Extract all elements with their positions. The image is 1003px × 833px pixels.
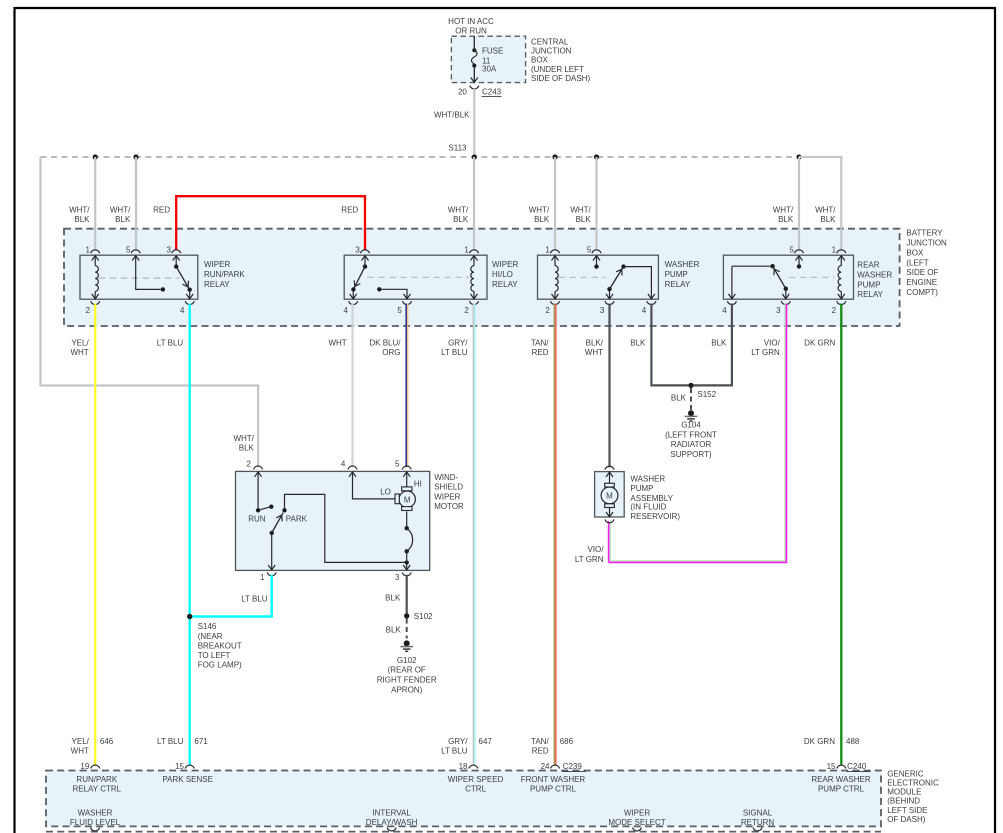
svg-text:647: 647 bbox=[479, 737, 493, 746]
GEM pin function INTERVAL DELAY/WASH bbox=[366, 808, 418, 827]
svg-text:M: M bbox=[606, 491, 613, 500]
battery junction box (dashed) bbox=[64, 229, 900, 326]
wire label LT BLU 671 bbox=[157, 737, 208, 746]
relay K4 label bbox=[857, 261, 892, 300]
svg-text:WHT: WHT bbox=[328, 339, 346, 348]
relay K2 pin 3 bbox=[355, 246, 369, 261]
svg-text:24: 24 bbox=[541, 762, 550, 771]
GEM pin 18 at x=473.3 bbox=[459, 762, 478, 771]
motor pin 1 bbox=[260, 565, 276, 582]
motor LO label bbox=[380, 487, 391, 496]
wire label RED (K2 pin3) bbox=[341, 206, 358, 215]
wire label DK BLU/ORG (K2 pin5) bbox=[369, 339, 401, 358]
fuse 11 30A bbox=[471, 36, 478, 82]
svg-text:DELAY/WASH: DELAY/WASH bbox=[366, 818, 418, 827]
svg-text:RED: RED bbox=[532, 348, 549, 357]
GEM pin 15 at x=841.3 bbox=[827, 762, 846, 771]
GEM pin function REAR WASHER PUMP CTRL bbox=[811, 775, 870, 794]
svg-text:RED: RED bbox=[341, 206, 358, 215]
motor run contact bbox=[256, 473, 274, 513]
svg-text:GRY/: GRY/ bbox=[448, 737, 468, 746]
svg-text:(LEFT: (LEFT bbox=[906, 258, 928, 267]
relay K4 pin 5 bbox=[789, 246, 803, 261]
connector C239 label bbox=[562, 762, 586, 771]
wire label WHT/BLK (K1 pin5) bbox=[110, 206, 131, 225]
svg-text:646: 646 bbox=[100, 737, 114, 746]
motor pin5 to HI brush bbox=[406, 473, 408, 487]
power feed label HOT IN ACC OR RUN bbox=[448, 17, 494, 36]
svg-text:BLK: BLK bbox=[74, 215, 90, 224]
svg-text:LEFT SIDE: LEFT SIDE bbox=[887, 806, 927, 815]
splice bus S113 bbox=[41, 156, 800, 158]
svg-text:RUN/PARK: RUN/PARK bbox=[204, 270, 245, 279]
relay K2 pin 5 bbox=[397, 294, 411, 315]
relay K2 pin5 contact line bbox=[377, 287, 407, 299]
relay K4 pin5 stub bbox=[797, 256, 801, 269]
svg-text:PUMP CTRL: PUMP CTRL bbox=[530, 785, 577, 794]
svg-text:1: 1 bbox=[86, 246, 91, 255]
svg-text:BATTERY: BATTERY bbox=[906, 229, 943, 238]
relay K2 pin 1 bbox=[464, 246, 478, 261]
svg-text:(BEHIND: (BEHIND bbox=[887, 797, 920, 806]
svg-text:COMPT): COMPT) bbox=[906, 288, 938, 297]
svg-text:WIPER: WIPER bbox=[204, 260, 230, 269]
svg-text:BLK: BLK bbox=[711, 339, 727, 348]
svg-text:BLK: BLK bbox=[778, 215, 794, 224]
motor pin1 link bbox=[271, 533, 273, 569]
ground G104 label bbox=[665, 421, 717, 459]
svg-text:ENGINE: ENGINE bbox=[906, 278, 937, 287]
svg-text:RELAY CTRL: RELAY CTRL bbox=[72, 785, 121, 794]
svg-text:DK BLU/: DK BLU/ bbox=[369, 339, 401, 348]
lower module top edge (dashed) bbox=[46, 831, 881, 833]
svg-text:TAN/: TAN/ bbox=[531, 339, 549, 348]
svg-text:1: 1 bbox=[260, 573, 265, 582]
connector C240 label bbox=[847, 762, 871, 771]
generic electronic module label bbox=[887, 769, 939, 824]
svg-text:YEL/: YEL/ bbox=[72, 737, 90, 746]
GEM pin 19 at x=95.2 bbox=[80, 762, 99, 771]
svg-text:(UNDER LEFT: (UNDER LEFT bbox=[531, 65, 584, 74]
svg-text:TAN/: TAN/ bbox=[531, 737, 549, 746]
svg-text:18: 18 bbox=[459, 762, 468, 771]
svg-text:GRY/: GRY/ bbox=[448, 339, 468, 348]
svg-text:RED: RED bbox=[153, 206, 170, 215]
wiper motor box bbox=[236, 471, 430, 570]
svg-text:S102: S102 bbox=[414, 612, 433, 621]
relay K3 pin 1 bbox=[545, 246, 559, 261]
relay K1 coil bbox=[95, 256, 98, 299]
svg-text:C240: C240 bbox=[847, 762, 867, 771]
relay K3 pin 4 bbox=[642, 294, 656, 315]
svg-text:WIPER: WIPER bbox=[434, 492, 460, 501]
wire BLK S152 to G104 (dashed) bbox=[690, 388, 692, 411]
wire label BLK (K4 pin4) bbox=[711, 339, 727, 348]
wire WHT/BLK S113 to K3 pin5 bbox=[595, 157, 597, 250]
svg-text:RUN/PARK: RUN/PARK bbox=[76, 775, 117, 784]
svg-text:REAR: REAR bbox=[857, 261, 879, 270]
svg-text:RIGHT FENDER: RIGHT FENDER bbox=[377, 676, 437, 685]
svg-text:WIPER: WIPER bbox=[624, 808, 650, 817]
svg-text:BLK: BLK bbox=[576, 215, 592, 224]
ground G104 bbox=[685, 410, 698, 421]
wire WHT/BLK S113 to K1 pin5 bbox=[135, 157, 137, 250]
wire label LT BLU (motor pin1) bbox=[241, 594, 268, 603]
svg-text:4: 4 bbox=[341, 459, 346, 468]
relay K3 pin 2 bbox=[545, 294, 559, 315]
svg-text:BLK: BLK bbox=[453, 215, 469, 224]
motor M armature bbox=[395, 487, 415, 511]
wire label VIO/LT GRN (pump) bbox=[575, 545, 604, 564]
svg-text:C239: C239 bbox=[563, 762, 583, 771]
relay K3 pin 5 bbox=[587, 246, 601, 261]
svg-text:FUSE: FUSE bbox=[482, 47, 503, 56]
svg-text:WHT: WHT bbox=[71, 747, 89, 756]
washer pump top pin bbox=[605, 466, 614, 483]
svg-text:OR RUN: OR RUN bbox=[455, 27, 487, 36]
svg-text:RESERVOIR): RESERVOIR) bbox=[630, 512, 680, 521]
svg-text:RED: RED bbox=[532, 747, 549, 756]
svg-text:4: 4 bbox=[180, 306, 185, 315]
svg-text:LT BLU: LT BLU bbox=[441, 348, 468, 357]
svg-text:PUMP CTRL: PUMP CTRL bbox=[818, 785, 865, 794]
svg-text:S152: S152 bbox=[697, 390, 716, 399]
svg-text:HI: HI bbox=[414, 479, 422, 488]
motor pin 5 bbox=[395, 459, 411, 476]
wire BLK K4 pin4 to S152 bbox=[691, 304, 732, 386]
relay K1 pin5 contact line bbox=[136, 256, 165, 292]
svg-text:(IN FLUID: (IN FLUID bbox=[630, 502, 666, 511]
wire label LT BLU (K1 pin4) bbox=[157, 339, 184, 348]
svg-text:15: 15 bbox=[827, 762, 836, 771]
svg-text:4: 4 bbox=[722, 306, 727, 315]
svg-text:APRON): APRON) bbox=[391, 685, 422, 694]
wire label WHT/BLK (K1 pin1) bbox=[69, 206, 90, 225]
svg-text:BOX: BOX bbox=[906, 248, 924, 257]
wire WHT/BLK S113 to K3 pin1 bbox=[554, 157, 556, 250]
motor breaker arc bbox=[405, 512, 413, 570]
svg-text:3: 3 bbox=[600, 306, 605, 315]
svg-text:1: 1 bbox=[832, 246, 837, 255]
relay K2 mech link (dashed) bbox=[367, 276, 469, 278]
svg-text:5: 5 bbox=[397, 306, 402, 315]
wire DK BLU/ORG K2 pin5 to motor pin5 bbox=[406, 304, 408, 468]
svg-text:3: 3 bbox=[167, 246, 172, 255]
wire WHT/BLK S113 to K4 pin5 bbox=[798, 157, 800, 250]
wire WHT K2 pin4 to motor pin4 bbox=[351, 304, 353, 468]
motor park contact bbox=[282, 494, 404, 562]
svg-text:FOG LAMP): FOG LAMP) bbox=[198, 661, 242, 670]
relay K1 label bbox=[204, 260, 245, 289]
svg-text:VIO/: VIO/ bbox=[764, 339, 781, 348]
wire WHT/BLK S113 to K2 pin1 bbox=[473, 157, 475, 250]
motor pin 3 bbox=[395, 565, 411, 582]
svg-text:LT BLU: LT BLU bbox=[241, 594, 268, 603]
washer pump motor M bbox=[601, 483, 618, 507]
motor pin4 to LO brush bbox=[353, 473, 396, 499]
svg-text:TO LEFT: TO LEFT bbox=[198, 651, 231, 660]
relay K3 mech link (dashed) bbox=[559, 276, 606, 278]
svg-text:686: 686 bbox=[560, 737, 574, 746]
generic electronic module box (dashed) bbox=[46, 771, 881, 827]
wire DK GRN K4 pin2 to GEM pin15 bbox=[840, 304, 842, 765]
svg-text:PARK SENSE: PARK SENSE bbox=[162, 775, 213, 784]
svg-text:BLK: BLK bbox=[534, 215, 550, 224]
svg-text:G104: G104 bbox=[681, 421, 701, 430]
relay K4 switch bbox=[773, 267, 788, 299]
splice S146 bbox=[187, 614, 192, 619]
wire label WHT (K2 pin4) bbox=[328, 339, 346, 348]
svg-text:MODE SELECT: MODE SELECT bbox=[608, 818, 665, 827]
svg-text:4: 4 bbox=[642, 306, 647, 315]
svg-text:WHT/: WHT/ bbox=[529, 206, 550, 215]
svg-text:LT GRN: LT GRN bbox=[751, 348, 780, 357]
svg-text:LT BLU: LT BLU bbox=[157, 339, 184, 348]
svg-text:RELAY: RELAY bbox=[204, 280, 230, 289]
GEM pin function WIPER SPEED CTRL bbox=[448, 775, 504, 794]
svg-text:WHT/BLK: WHT/BLK bbox=[434, 111, 470, 120]
wiper motor label bbox=[434, 473, 464, 511]
wire LT BLU K1 pin4 to S146 to GEM pin15 bbox=[188, 304, 190, 765]
motor park switch arm bbox=[270, 513, 284, 536]
svg-text:LT BLU: LT BLU bbox=[157, 737, 184, 746]
wire WHT/BLK S113 to K1 pin1 bbox=[94, 157, 96, 250]
relay K4 box bbox=[723, 255, 853, 299]
GEM bottom pin at x=637 bbox=[633, 828, 642, 831]
battery junction box label bbox=[906, 229, 947, 297]
wire label RED (K1 pin3) bbox=[153, 206, 170, 215]
relay K4 pin 3 bbox=[776, 294, 790, 315]
wire label BLK/WHT (K3 pin3) bbox=[585, 339, 604, 358]
svg-text:RELAY: RELAY bbox=[665, 280, 691, 289]
wire label YEL/WHT (K1 pin2) bbox=[70, 339, 89, 358]
relay K4 coil bbox=[838, 256, 841, 299]
central junction box (dashed) bbox=[451, 36, 525, 82]
svg-text:SHIELD: SHIELD bbox=[434, 483, 463, 492]
motor HI label bbox=[414, 479, 422, 488]
wire BLK/WHT K3 pin3 to washer pump bbox=[608, 304, 610, 468]
wire WHT/BLK fuse to S113 bbox=[473, 89, 475, 157]
svg-text:15: 15 bbox=[175, 762, 184, 771]
wire label VIO/LT GRN (K4 pin3) bbox=[751, 339, 780, 358]
connector C243 cup bbox=[470, 86, 479, 89]
svg-text:M: M bbox=[404, 495, 411, 504]
relay K2 coil bbox=[471, 256, 474, 299]
motor pin 2 bbox=[246, 459, 262, 476]
svg-text:5: 5 bbox=[789, 246, 794, 255]
splice S152 bbox=[688, 383, 716, 399]
svg-text:WASHER: WASHER bbox=[630, 474, 665, 483]
svg-text:RADIATOR: RADIATOR bbox=[671, 440, 712, 449]
relay K1 pin 2 bbox=[86, 294, 100, 315]
relay K3 switch bbox=[607, 264, 651, 298]
svg-text:LT GRN: LT GRN bbox=[575, 555, 604, 564]
svg-text:BREAKOUT: BREAKOUT bbox=[198, 641, 242, 650]
svg-text:FRONT WASHER: FRONT WASHER bbox=[521, 775, 586, 784]
svg-text:30A: 30A bbox=[482, 65, 497, 74]
svg-text:WIND-: WIND- bbox=[434, 473, 458, 482]
svg-text:(LEFT FRONT: (LEFT FRONT bbox=[665, 430, 717, 439]
svg-text:REAR WASHER: REAR WASHER bbox=[811, 775, 870, 784]
svg-text:INTERVAL: INTERVAL bbox=[372, 808, 411, 817]
svg-text:PARK: PARK bbox=[286, 515, 308, 524]
svg-text:SUPPORT): SUPPORT) bbox=[670, 450, 712, 459]
relay K3 label bbox=[665, 260, 700, 289]
washer pump bottom pin bbox=[605, 508, 614, 523]
svg-text:DK GRN: DK GRN bbox=[804, 339, 835, 348]
relay K1 box bbox=[80, 255, 198, 299]
svg-text:WASHER: WASHER bbox=[665, 260, 700, 269]
relay K1 pin 4 bbox=[180, 294, 194, 315]
svg-text:BLK: BLK bbox=[820, 215, 836, 224]
svg-text:BLK: BLK bbox=[239, 444, 255, 453]
svg-text:DK GRN: DK GRN bbox=[804, 737, 835, 746]
GEM bottom pin at x=95 bbox=[91, 828, 100, 831]
splice S113 label bbox=[448, 144, 467, 153]
relay K3 coil bbox=[555, 256, 558, 299]
relay K2 box bbox=[344, 255, 487, 299]
svg-text:S113: S113 bbox=[448, 144, 467, 153]
wire label TAN/RED (K3 pin2) bbox=[531, 339, 549, 358]
svg-text:PUMP: PUMP bbox=[857, 280, 880, 289]
wire YEL/WHT K1 pin2 to GEM pin19 bbox=[94, 304, 96, 765]
relay K1 pin 3 bbox=[167, 246, 181, 261]
svg-text:PUMP: PUMP bbox=[665, 270, 688, 279]
svg-text:2: 2 bbox=[545, 306, 550, 315]
svg-text:(REAR OF: (REAR OF bbox=[388, 666, 426, 675]
svg-text:SIDE OF: SIDE OF bbox=[906, 268, 938, 277]
svg-text:5: 5 bbox=[126, 246, 131, 255]
svg-text:488: 488 bbox=[846, 737, 860, 746]
GEM pin 15 at x=189.7 bbox=[175, 762, 194, 771]
relay K4 pin4 contact line bbox=[732, 264, 775, 299]
relay K4 pin 1 bbox=[832, 246, 846, 261]
svg-text:RELAY: RELAY bbox=[492, 280, 518, 289]
svg-text:1: 1 bbox=[545, 246, 550, 255]
relay K1 switch bbox=[174, 256, 192, 299]
svg-text:5: 5 bbox=[395, 459, 400, 468]
ground G102 bbox=[400, 640, 413, 651]
junction dot S113 at x=555 bbox=[552, 154, 557, 159]
svg-text:WASHER: WASHER bbox=[78, 808, 113, 817]
svg-text:HI/LO: HI/LO bbox=[492, 270, 513, 279]
svg-text:PUMP: PUMP bbox=[630, 484, 653, 493]
washer pump box bbox=[595, 472, 625, 517]
junction dot S113 at x=474.3 bbox=[472, 154, 477, 159]
svg-text:WIPER SPEED: WIPER SPEED bbox=[448, 775, 504, 784]
relay K4 pin 2 bbox=[832, 294, 846, 315]
wire label TAN/RED 686 bbox=[531, 737, 574, 756]
wire label WHT/BLK (K3 pin5) bbox=[570, 206, 591, 225]
svg-text:BLK: BLK bbox=[385, 593, 401, 602]
svg-text:GENERIC: GENERIC bbox=[887, 769, 924, 778]
svg-text:WASHER: WASHER bbox=[857, 270, 892, 279]
svg-text:LO: LO bbox=[380, 487, 391, 496]
wire label GRY/LT BLU 647 bbox=[441, 737, 492, 756]
wire label WHT/BLK (K4 pin1) bbox=[815, 206, 836, 225]
wire WHT/BLK S113 branch to K4 pin1 bbox=[799, 157, 841, 250]
svg-text:S146: S146 bbox=[198, 622, 217, 631]
svg-text:HOT IN ACC: HOT IN ACC bbox=[448, 17, 494, 26]
svg-text:JUNCTION: JUNCTION bbox=[531, 47, 572, 56]
svg-text:WHT/: WHT/ bbox=[570, 206, 591, 215]
connector C243 label bbox=[482, 87, 502, 96]
svg-text:4: 4 bbox=[344, 306, 349, 315]
svg-text:BLK: BLK bbox=[630, 339, 646, 348]
svg-text:ORG: ORG bbox=[382, 348, 400, 357]
svg-text:1: 1 bbox=[464, 246, 469, 255]
wire label GRY/LT BLU (K2 pin2) bbox=[441, 339, 468, 358]
relay K4 mech link (dashed) bbox=[789, 276, 834, 278]
relay K1 pin 5 bbox=[126, 246, 140, 261]
svg-text:5: 5 bbox=[587, 246, 592, 255]
svg-text:20: 20 bbox=[458, 87, 467, 96]
motor park label bbox=[286, 515, 308, 524]
GEM bottom pin at x=757.5 bbox=[753, 828, 762, 831]
svg-text:JUNCTION: JUNCTION bbox=[906, 239, 947, 248]
wire label WHT/BLK (K4 pin5) bbox=[773, 206, 794, 225]
svg-text:SIDE OF DASH): SIDE OF DASH) bbox=[531, 74, 590, 83]
wire GRY/LT BLU K2 pin2 to GEM pin18 bbox=[473, 304, 475, 765]
svg-text:SIGNAL: SIGNAL bbox=[743, 808, 773, 817]
relay K2 pin 4 bbox=[344, 294, 358, 315]
washer pump label bbox=[630, 474, 680, 521]
svg-text:RETURN: RETURN bbox=[741, 818, 775, 827]
svg-text:2: 2 bbox=[464, 306, 469, 315]
junction dot S113 at x=136 bbox=[133, 154, 138, 159]
svg-text:BLK/: BLK/ bbox=[586, 339, 604, 348]
svg-text:VIO/: VIO/ bbox=[587, 545, 604, 554]
wire BLK motor pin3 to S102 bbox=[406, 575, 408, 614]
wire label BLK (motor pin3) bbox=[385, 593, 401, 602]
relay K2 switch bbox=[351, 256, 367, 299]
GEM pin 24 at x=555 bbox=[541, 762, 560, 771]
relay K1 mech link (dashed) bbox=[99, 277, 180, 279]
splice S102 bbox=[404, 612, 433, 621]
relay K3 pin 3 bbox=[600, 294, 614, 315]
fuse value label bbox=[482, 47, 503, 74]
svg-text:WHT/: WHT/ bbox=[773, 206, 794, 215]
wire VIO/LT GRN K4 pin3 to washer pump bbox=[609, 304, 787, 563]
wire WHT/BLK S113 left drop to motor pin2 bbox=[41, 157, 259, 467]
ground G102 label bbox=[377, 656, 437, 695]
svg-text:C243: C243 bbox=[482, 87, 502, 96]
svg-text:WIPER: WIPER bbox=[492, 260, 518, 269]
splice S146 label bbox=[198, 622, 242, 669]
svg-text:671: 671 bbox=[194, 737, 208, 746]
junction dot S113 at x=596.5 bbox=[594, 154, 599, 159]
wire BLK K3 pin4 to S152 bbox=[651, 304, 691, 386]
pin 20 label bbox=[458, 87, 467, 96]
wire label WHT/BLK (K2 pin1) bbox=[448, 206, 469, 225]
svg-text:OF DASH): OF DASH) bbox=[887, 815, 926, 824]
wire label BLK (to G102) bbox=[386, 625, 402, 634]
svg-text:YEL/: YEL/ bbox=[71, 339, 89, 348]
svg-text:WHT/: WHT/ bbox=[448, 206, 469, 215]
svg-text:G102: G102 bbox=[397, 656, 417, 665]
relay K2 label bbox=[492, 260, 518, 289]
svg-text:FLUID LEVEL: FLUID LEVEL bbox=[70, 818, 121, 827]
svg-text:RELAY: RELAY bbox=[857, 290, 883, 299]
junction dot S113 at x=799 bbox=[796, 154, 801, 159]
svg-text:MODULE: MODULE bbox=[887, 788, 921, 797]
wire TAN/RED K3 pin2 to GEM pin24 bbox=[554, 304, 556, 765]
svg-text:ELECTRONIC: ELECTRONIC bbox=[887, 779, 939, 788]
wire label DK GRN 488 bbox=[804, 737, 860, 746]
GEM pin function WIPER MODE SELECT bbox=[608, 808, 665, 827]
wire label YEL/WHT 646 bbox=[71, 737, 114, 756]
svg-text:BLK: BLK bbox=[386, 625, 402, 634]
